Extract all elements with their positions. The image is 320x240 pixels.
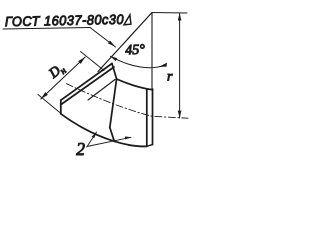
Dn arrow bottom-left [41,92,48,99]
axis dash-dot line [67,84,189,119]
45 deg end plane line [98,13,152,72]
sector bottom edge left [61,114,115,142]
Dn arrow top-right [78,57,85,64]
svg-text:ГОСТ 16037-80с30: ГОСТ 16037-80с30 [5,11,125,29]
Dn label [46,61,69,84]
weld joint front line [110,79,117,128]
svg-text:2: 2 [76,139,85,159]
position leader end arrow [125,137,132,140]
45 deg dimension arc [111,56,167,67]
sector end face strip lower edge [61,67,114,105]
right sector top arc [117,79,153,90]
vertical end plane line [151,13,153,90]
r dimension line [179,14,181,119]
Dn extension line lower [38,95,61,114]
weld joint front lower [110,128,115,142]
position leader branch to right sector [87,137,131,146]
bottom right connector [147,145,153,147]
leader line [90,28,116,48]
inner chord line [88,80,115,101]
leader shelf [3,28,90,30]
right sector front right edge [146,89,148,147]
leader half-arrow [108,41,116,47]
r arrow bottom [178,111,182,119]
right sector back right edge [152,89,154,145]
sector end face strip upper edge [61,64,112,101]
horizontal line from vertex [152,12,187,15]
svg-text:r: r [167,70,173,85]
Dn extension line upper [81,52,105,71]
position leader branch arrow [92,132,97,138]
Dn dimension line [41,57,85,99]
weld joint top connector [112,64,117,80]
r arrow top [178,13,182,21]
arc arrow right [159,63,167,67]
weld symbol triangle [124,15,131,25]
sector bottom edge right [114,141,147,146]
svg-text:45°: 45° [125,42,146,58]
sector left vertical edge [60,100,62,114]
position leader branch to left sector [87,132,97,147]
arc arrow left [110,56,117,61]
